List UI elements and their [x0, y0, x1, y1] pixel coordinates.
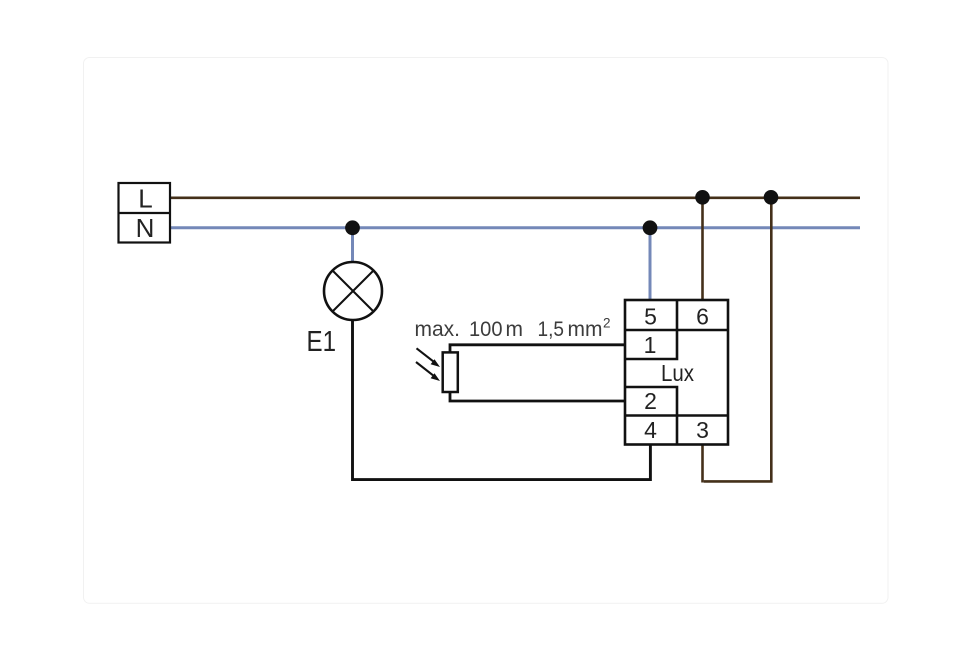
svg-text:2: 2 — [644, 388, 657, 414]
svg-text:L: L — [138, 184, 152, 214]
svg-text:1,5: 1,5 — [538, 318, 565, 341]
svg-text:mm: mm — [568, 318, 603, 341]
svg-text:5: 5 — [644, 304, 657, 330]
svg-text:E1: E1 — [307, 326, 337, 358]
svg-text:2: 2 — [603, 316, 611, 331]
svg-text:max.: max. — [415, 318, 461, 341]
svg-text:N: N — [136, 213, 155, 243]
svg-text:Lux: Lux — [661, 360, 694, 386]
svg-text:6: 6 — [696, 304, 709, 330]
svg-text:3: 3 — [696, 417, 709, 443]
svg-text:4: 4 — [644, 417, 657, 443]
svg-text:1: 1 — [644, 332, 657, 358]
svg-text:100: 100 — [469, 318, 503, 341]
svg-text:m: m — [506, 318, 524, 341]
